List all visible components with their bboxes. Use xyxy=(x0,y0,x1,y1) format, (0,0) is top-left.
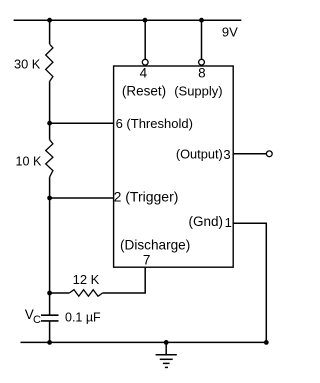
svg-text:(Reset): (Reset) xyxy=(122,83,166,98)
svg-text:8: 8 xyxy=(198,65,206,80)
wire: junction to 12K resistor xyxy=(50,292,70,294)
svg-text:7: 7 xyxy=(143,252,151,267)
node: trigger junction xyxy=(47,196,52,201)
junction on ground rail at ground symbol xyxy=(164,340,169,345)
pin 4 terminal circle xyxy=(142,59,148,65)
wire: 10K bottom to trigger node and down to cap xyxy=(49,177,51,315)
wire: pin 3 output xyxy=(233,153,266,155)
capacitor 0.1 uF top plate xyxy=(41,314,59,316)
resistor 30 K xyxy=(46,44,53,81)
output terminal circle xyxy=(266,151,272,157)
wire: 9V supply rail (top horizontal) xyxy=(14,19,242,21)
svg-text:1: 1 xyxy=(225,215,232,230)
ground symbol xyxy=(156,342,177,367)
capacitor 0.1 uF bottom plate xyxy=(41,320,59,322)
svg-text:30 K: 30 K xyxy=(14,56,41,71)
wire: drop to pin 4 xyxy=(144,20,146,59)
junction on 9V rail above pin 4 xyxy=(143,18,148,23)
pin 8 terminal circle xyxy=(199,59,205,65)
svg-text:(Discharge): (Discharge) xyxy=(120,237,190,252)
wire: bottom ground rail xyxy=(21,341,267,343)
svg-text:(Supply): (Supply) xyxy=(174,83,222,98)
svg-text:C: C xyxy=(33,314,41,326)
svg-text:6 (Threshold): 6 (Threshold) xyxy=(116,116,193,131)
resistor 12 K xyxy=(69,290,102,297)
junction on 9V rail above pin 8 xyxy=(199,18,204,23)
svg-text:0.1 µF: 0.1 µF xyxy=(65,310,101,324)
svg-text:9V: 9V xyxy=(222,25,238,40)
wire: 12K to pin 7 stem xyxy=(103,267,146,293)
svg-text:(Gnd): (Gnd) xyxy=(188,214,223,229)
svg-text:10 K: 10 K xyxy=(16,155,43,169)
wire: threshold node to pin 6 xyxy=(50,122,114,124)
wire: 30K bottom to threshold node xyxy=(49,81,51,139)
svg-text:12 K: 12 K xyxy=(73,272,100,287)
wire: drop to pin 8 xyxy=(201,20,203,59)
svg-text:(Output): (Output) xyxy=(176,147,223,162)
junction on 9V rail at left branch xyxy=(47,18,52,23)
wire: trigger node to pin 2 xyxy=(50,197,114,199)
IC 555 timer box xyxy=(114,66,234,267)
svg-text:3: 3 xyxy=(223,147,230,162)
svg-text:2 (Trigger): 2 (Trigger) xyxy=(114,188,179,204)
wire: 9V rail down to 30K top xyxy=(49,20,51,44)
node: discharge branch junction xyxy=(47,291,52,296)
junction at bottom right corner xyxy=(264,340,269,345)
junction on ground rail at cap xyxy=(47,340,52,345)
resistor 10 K xyxy=(46,140,53,177)
node: threshold junction xyxy=(47,121,52,126)
svg-text:4: 4 xyxy=(140,65,148,80)
wire: pin 1 gnd to right rail xyxy=(233,223,266,342)
wire: cap bottom to ground rail xyxy=(49,321,51,343)
